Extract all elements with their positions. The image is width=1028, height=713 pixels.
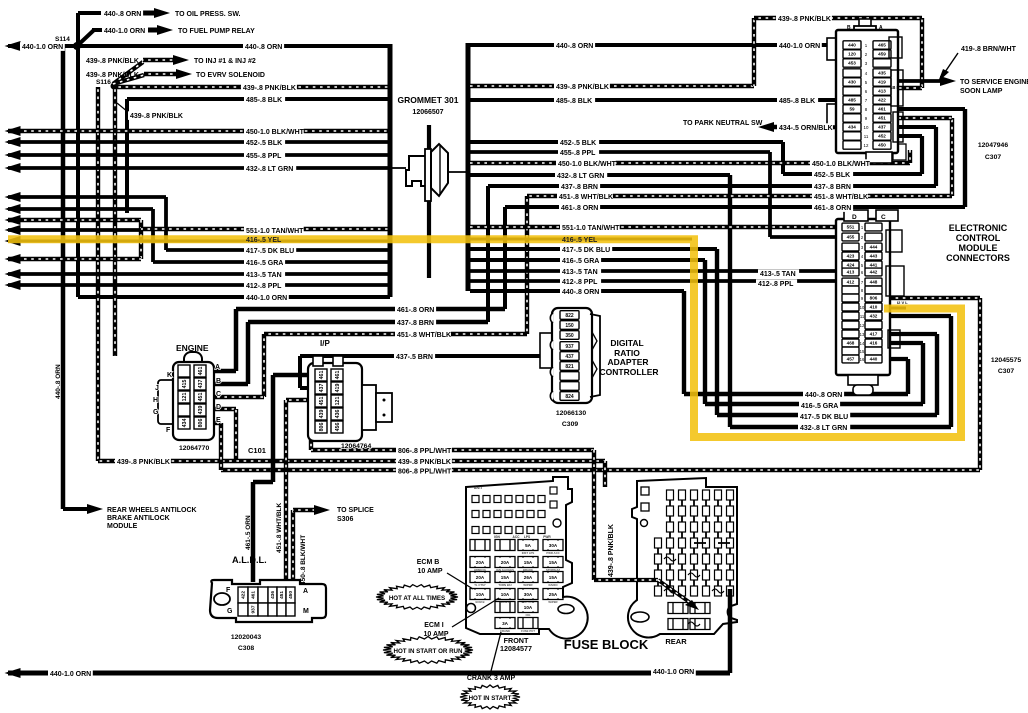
wire 452-.5 BLK row left [8, 140, 390, 144]
svg-text:12064764: 12064764 [341, 443, 371, 450]
wire 452-.5 BLK row right [470, 140, 783, 144]
wire 461-.8 ORN row to engine A [236, 307, 505, 312]
svg-text:16: 16 [860, 357, 865, 362]
svg-text:439-.8 PNK/BLK: 439-.8 PNK/BLK [130, 113, 183, 120]
svg-text:437: 437 [198, 380, 204, 389]
svg-text:B: B [216, 378, 221, 385]
svg-text:456: 456 [335, 423, 341, 432]
svg-text:25A: 25A [549, 592, 558, 597]
svg-text:424: 424 [847, 263, 855, 268]
svg-text:GROMMET 301: GROMMET 301 [398, 95, 459, 105]
connector ENGINE 12064770 [184, 352, 202, 368]
svg-text:350: 350 [565, 333, 574, 339]
svg-text:437: 437 [565, 354, 574, 360]
svg-text:806: 806 [319, 423, 325, 432]
svg-text:26A: 26A [524, 575, 533, 580]
svg-text:437: 437 [319, 384, 325, 393]
svg-text:417: 417 [870, 332, 878, 337]
svg-text:413-.5 TAN: 413-.5 TAN [562, 269, 598, 276]
svg-text:TURN B/U: TURN B/U [498, 583, 511, 587]
svg-text:PWR ACC: PWR ACC [546, 551, 559, 555]
wire 439-.8 PNK/BLK loop top right [470, 84, 754, 88]
svg-text:430: 430 [848, 80, 856, 85]
svg-text:1B F: 1B F [890, 85, 900, 90]
svg-text:14: 14 [860, 341, 865, 346]
svg-text:13: 13 [860, 332, 865, 337]
svg-text:20A: 20A [476, 560, 485, 565]
wire 485-.8 BLK row left [127, 97, 390, 101]
svg-text:REAR WHEELS ANTILOCK: REAR WHEELS ANTILOCK [107, 507, 197, 514]
svg-text:440-1.0 ORN: 440-1.0 ORN [104, 28, 145, 35]
wire 434-.5 ORN/BLK park neutral [772, 125, 843, 129]
svg-text:C309: C309 [562, 421, 578, 428]
svg-text:WIPER: WIPER [523, 583, 532, 587]
svg-text:C307: C307 [998, 368, 1014, 375]
svg-text:417-.5 DK BLU: 417-.5 DK BLU [246, 248, 294, 255]
wire 416 GRA left branch [8, 207, 153, 211]
svg-text:416-.5 YEL: 416-.5 YEL [246, 237, 282, 244]
svg-text:485: 485 [848, 98, 856, 103]
svg-text:485-.8 BLK: 485-.8 BLK [779, 98, 815, 105]
wire 551-1.0 TAN/WHT row right [470, 225, 842, 229]
connector DRAC C309 12066130 [540, 333, 554, 368]
svg-text:TO EVRV SOLENOID: TO EVRV SOLENOID [196, 72, 265, 79]
svg-text:CONTROL: CONTROL [956, 233, 1001, 243]
grommet 301 symbol [427, 125, 431, 278]
svg-text:465: 465 [878, 43, 886, 48]
svg-text:461: 461 [198, 367, 204, 376]
svg-text:437-.8 BRN: 437-.8 BRN [397, 320, 434, 327]
svg-text:12020043: 12020043 [231, 634, 261, 641]
svg-text:461: 461 [878, 107, 886, 112]
svg-text:439-.8 PNK/BLK: 439-.8 PNK/BLK [86, 58, 139, 65]
svg-text:DIGITAL: DIGITAL [610, 338, 643, 348]
connector C307 upper ECM 12047946 [827, 38, 839, 60]
svg-text:15A: 15A [549, 575, 558, 580]
svg-text:413: 413 [878, 89, 886, 94]
starburst hot at all times [376, 585, 458, 610]
svg-text:S116: S116 [96, 79, 111, 86]
svg-text:455: 455 [847, 235, 855, 240]
svg-text:461-.5 ORN: 461-.5 ORN [245, 515, 252, 550]
svg-text:439: 439 [319, 410, 325, 419]
wire hashed U branch left [8, 218, 141, 222]
svg-text:413: 413 [847, 270, 855, 275]
wire 417-.5 DK BLU row right [470, 247, 717, 251]
svg-text:439-.8 PNK/BLK: 439-.8 PNK/BLK [86, 72, 139, 79]
svg-text:806: 806 [198, 419, 204, 428]
connector lower ECM bottom tab [848, 375, 878, 385]
connector tab C [876, 210, 898, 221]
svg-text:ELECTRONIC: ELECTRONIC [949, 223, 1008, 233]
svg-text:455-.8 PPL: 455-.8 PPL [560, 150, 596, 157]
svg-text:440-.8 ORN: 440-.8 ORN [55, 364, 62, 399]
svg-text:12: 12 [864, 143, 869, 148]
svg-text:439: 439 [198, 406, 204, 415]
svg-text:12047946: 12047946 [978, 142, 1008, 149]
svg-text:450-1.0 BLK/WHT: 450-1.0 BLK/WHT [558, 161, 617, 168]
svg-text:440-.8 ORN: 440-.8 ORN [805, 392, 842, 399]
svg-text:FUSE BLOCK: FUSE BLOCK [564, 637, 649, 652]
svg-text:INST LPS: INST LPS [522, 551, 535, 555]
svg-text:H: H [153, 397, 158, 404]
svg-text:824: 824 [565, 394, 574, 400]
svg-text:10: 10 [860, 305, 865, 310]
wire 439 PNK/BLK engine D drop [210, 407, 236, 411]
wire trunk left at grommet [388, 44, 393, 297]
svg-text:C: C [881, 214, 886, 221]
svg-text:A: A [879, 25, 883, 31]
label pointer 439 [117, 103, 128, 112]
svg-text:422: 422 [878, 98, 886, 103]
wire 440 ORN row to ECM A pin1 [470, 43, 840, 47]
wire 413-.5 TAN row left [8, 272, 390, 276]
svg-text:432: 432 [870, 314, 878, 319]
pointer 419-.8 BRN/WHT [943, 53, 958, 75]
svg-text:485-.8 BLK: 485-.8 BLK [556, 98, 592, 105]
svg-text:20A: 20A [501, 560, 510, 565]
svg-text:ENGINE: ENGINE [176, 343, 209, 353]
svg-text:439-.8 PNK/BLK: 439-.8 PNK/BLK [243, 85, 296, 92]
svg-text:419-.8 BRN/WHT: 419-.8 BRN/WHT [961, 46, 1017, 53]
svg-text:F: F [166, 427, 171, 434]
svg-text:D: D [216, 404, 221, 411]
svg-text:806: 806 [870, 296, 878, 301]
pointer ECM B fuse [447, 573, 473, 589]
svg-text:ECM B: ECM B [417, 559, 440, 566]
svg-text:461: 461 [335, 371, 341, 380]
svg-text:F: F [226, 587, 231, 594]
svg-text:G: G [153, 409, 159, 416]
svg-text:ADAPTER: ADAPTER [607, 357, 648, 367]
svg-text:451-.8 WHT/BLK: 451-.8 WHT/BLK [814, 194, 868, 201]
svg-text:419: 419 [878, 80, 886, 85]
svg-text:G: G [227, 608, 233, 615]
connector C307 lower ECM 12045575 [836, 219, 890, 375]
wire 440-.8 ORN row right [470, 289, 684, 293]
svg-text:ECM B: ECM B [475, 600, 484, 604]
svg-text:440-.8 ORN: 440-.8 ORN [104, 11, 141, 18]
svg-text:30A: 30A [524, 592, 533, 597]
svg-text:410: 410 [870, 305, 878, 310]
svg-text:453: 453 [848, 61, 856, 66]
svg-text:412-.8 PPL: 412-.8 PPL [562, 279, 598, 286]
svg-text:K: K [167, 372, 172, 379]
wire 461 ORN ip to aldl [273, 373, 316, 378]
svg-text:I2 V L: I2 V L [897, 300, 908, 305]
svg-text:436: 436 [270, 591, 276, 599]
svg-text:TO OIL PRESS. SW.: TO OIL PRESS. SW. [175, 11, 241, 18]
svg-text:439-.8 PNK/BLK: 439-.8 PNK/BLK [556, 84, 609, 91]
svg-text:444: 444 [870, 245, 878, 250]
wire 416 YEL pin10 stub [882, 307, 906, 310]
wire 455-.8 PPL row left [8, 153, 390, 157]
svg-text:416-.5 GRA: 416-.5 GRA [246, 260, 283, 267]
svg-text:452: 452 [878, 134, 886, 139]
wire 485-.8 BLK row right [470, 98, 843, 102]
svg-text:440-.8 ORN: 440-.8 ORN [556, 43, 593, 50]
svg-text:461: 461 [319, 371, 325, 380]
wire 416-.5 GRA row right [470, 258, 705, 262]
wire 450-1.0 BLK/WHT row left [8, 129, 390, 133]
svg-text:432-.8 LT GRN: 432-.8 LT GRN [246, 166, 293, 173]
svg-text:413-.5 TAN: 413-.5 TAN [246, 272, 282, 279]
svg-text:417-.5 DK BLU: 417-.5 DK BLU [800, 414, 848, 421]
svg-text:412-.8 PPL: 412-.8 PPL [758, 281, 794, 288]
wire 440-.8 ORN vertical to antilock module [61, 46, 66, 509]
wire 485-.8 BLK vertical [125, 99, 129, 213]
wire 440-1.0 ORN vertical from S114 [76, 46, 80, 297]
svg-text:452-.5 BLK: 452-.5 BLK [814, 172, 850, 179]
svg-text:C: C [216, 391, 221, 398]
svg-text:20A: 20A [476, 575, 485, 580]
node S114 [73, 42, 81, 50]
wire 806 PPL/WHT upper row [309, 427, 313, 450]
svg-text:450: 450 [878, 143, 886, 148]
svg-text:15: 15 [860, 349, 865, 354]
svg-text:434-.5 ORN/BLK: 434-.5 ORN/BLK [779, 125, 833, 132]
svg-text:457: 457 [847, 357, 855, 362]
svg-text:M: M [303, 608, 309, 615]
svg-text:440-1.0 ORN: 440-1.0 ORN [246, 295, 287, 302]
svg-text:448: 448 [870, 280, 878, 285]
svg-text:E: E [216, 417, 221, 424]
svg-text:11: 11 [864, 134, 869, 139]
svg-text:451: 451 [198, 393, 204, 402]
pointer CRANK fuse [491, 632, 501, 671]
wire 432-.8 LT GRN row right [470, 173, 730, 177]
svg-text:415: 415 [182, 380, 188, 389]
svg-text:416: 416 [870, 341, 878, 346]
svg-text:I/P: I/P [320, 339, 330, 348]
svg-text:10A: 10A [524, 605, 533, 610]
svg-text:C308: C308 [238, 645, 254, 652]
svg-text:10A: 10A [476, 592, 485, 597]
wire 412-.8 PPL row right [470, 279, 842, 283]
svg-text:443: 443 [870, 254, 878, 259]
svg-text:452-.5 BLK: 452-.5 BLK [246, 140, 282, 147]
svg-text:450-.8 BLK/WHT: 450-.8 BLK/WHT [300, 535, 307, 585]
svg-text:LPS: LPS [524, 535, 530, 539]
svg-text:417-.5 DK BLU: 417-.5 DK BLU [562, 247, 610, 254]
svg-text:TO SERVICE ENGINE: TO SERVICE ENGINE [960, 79, 1028, 86]
svg-text:937: 937 [251, 605, 257, 613]
svg-text:821: 821 [565, 364, 574, 370]
wire 451-.8 WHT/BLK row right [527, 194, 952, 198]
svg-text:434: 434 [848, 125, 856, 130]
svg-text:437: 437 [878, 125, 886, 130]
svg-text:TL CTSY: TL CTSY [474, 583, 486, 587]
svg-text:ECM I: ECM I [424, 622, 444, 629]
svg-text:10 AMP: 10 AMP [417, 568, 442, 575]
svg-text:419: 419 [335, 384, 341, 393]
svg-text:TO PARK NEUTRAL SW: TO PARK NEUTRAL SW [683, 120, 763, 127]
svg-text:416-.5 GRA: 416-.5 GRA [562, 258, 599, 265]
yellow highlighted wire 416 YEL path [8, 239, 961, 437]
svg-text:455-.8 PPL: 455-.8 PPL [246, 153, 282, 160]
wire 806 PPL/WHT engine E drop [210, 421, 221, 425]
svg-text:459: 459 [878, 52, 886, 57]
svg-text:441: 441 [870, 263, 878, 268]
svg-text:A.L.D.L.: A.L.D.L. [232, 555, 267, 565]
svg-text:437-.8 BRN: 437-.8 BRN [561, 184, 598, 191]
connector I/P 12064764 [308, 363, 362, 441]
svg-text:12066507: 12066507 [412, 109, 443, 116]
wire to rear wheels antilock module [63, 507, 90, 511]
starburst hot in start or run [383, 637, 473, 664]
wire 439-.8 PNK/BLK vertical S116 down left [96, 87, 100, 461]
svg-text:440-.8 ORN: 440-.8 ORN [562, 289, 599, 296]
svg-text:RADIO: RADIO [548, 583, 558, 587]
svg-text:440-1.0 ORN: 440-1.0 ORN [50, 671, 91, 678]
svg-text:BRAKE ANTILOCK: BRAKE ANTILOCK [107, 515, 170, 522]
svg-text:HOT IN START: HOT IN START [469, 695, 512, 702]
svg-text:440: 440 [870, 357, 878, 362]
svg-text:461: 461 [251, 591, 257, 599]
fuse block FRONT 12084577 [466, 477, 588, 639]
svg-text:416-.5 GRA: 416-.5 GRA [801, 403, 838, 410]
svg-text:10: 10 [864, 125, 869, 130]
wire 450-.8 BLK/WHT aldl to splice [291, 510, 295, 582]
wire 437-.8 BRN row to engine B [248, 320, 488, 325]
wire 806 hashed pin9 loop [884, 296, 980, 300]
svg-text:451: 451 [319, 397, 325, 406]
svg-text:440-1.0 ORN: 440-1.0 ORN [779, 43, 820, 50]
fuse block REAR [628, 478, 737, 638]
svg-text:C101: C101 [248, 446, 266, 455]
svg-text:S306: S306 [337, 516, 353, 523]
svg-text:SOON LAMP: SOON LAMP [960, 88, 1003, 95]
wire trunk right at grommet [466, 43, 471, 291]
svg-text:15A: 15A [501, 575, 510, 580]
svg-text:HOT AT ALL TIMES: HOT AT ALL TIMES [389, 595, 445, 602]
svg-text:30A: 30A [549, 543, 558, 548]
node S116 [111, 83, 118, 90]
svg-text:ANTI: ANTI [474, 486, 482, 490]
svg-text:439-.8 PNK/BLK: 439-.8 PNK/BLK [608, 524, 615, 577]
connector ALDL C308 12020043 [210, 580, 326, 622]
svg-text:3A: 3A [502, 621, 509, 626]
svg-text:450-1.0 BLK/WHT: 450-1.0 BLK/WHT [812, 161, 871, 168]
svg-text:REAR: REAR [665, 637, 687, 646]
svg-text:12064770: 12064770 [179, 445, 209, 452]
svg-text:CONTROLLER: CONTROLLER [599, 367, 658, 377]
svg-text:432-.8 LT GRN: 432-.8 LT GRN [800, 425, 847, 432]
svg-text:10A: 10A [501, 592, 510, 597]
svg-text:436: 436 [335, 410, 341, 419]
wire 437-.5 BRN row to DRAC [300, 354, 558, 358]
svg-text:CIG: CIG [526, 613, 531, 617]
svg-text:59: 59 [849, 107, 855, 112]
svg-text:12084577: 12084577 [500, 644, 532, 653]
svg-text:551-1.0 TAN/WHT: 551-1.0 TAN/WHT [562, 225, 620, 232]
svg-text:440-1.0 ORN: 440-1.0 ORN [653, 669, 694, 676]
svg-text:437-.5 BRN: 437-.5 BRN [396, 354, 433, 361]
svg-text:412-.8 PPL: 412-.8 PPL [246, 283, 282, 290]
wire 439 PNK/BLK into rear block [594, 578, 658, 582]
svg-text:451-.8 WHT/BLK: 451-.8 WHT/BLK [397, 332, 451, 339]
svg-text:TO SPLICE: TO SPLICE [337, 507, 374, 514]
wire 455-.8 PPL row right [470, 150, 770, 154]
wire 437-.8 BRN row right [488, 184, 936, 188]
wire 451-.8 WHT/BLK row to engine C [264, 332, 527, 336]
wire 451-.8 WHT/BLK ip to aldl [286, 398, 316, 402]
wire 417 DK BLU left branch [8, 195, 166, 199]
svg-text:442: 442 [870, 270, 878, 275]
svg-text:412: 412 [847, 280, 855, 285]
wire 439-.8 PNK/BLK to EVRV [113, 75, 144, 84]
svg-text:CONNECTORS: CONNECTORS [946, 253, 1010, 263]
svg-text:452-.5 BLK: 452-.5 BLK [560, 140, 596, 147]
wire 461-.8 ORN row right [505, 205, 965, 209]
svg-text:TO INJ #1 & INJ #2: TO INJ #1 & INJ #2 [194, 58, 256, 65]
svg-text:121: 121 [182, 393, 188, 402]
svg-text:121: 121 [335, 397, 341, 406]
wire 416-.5 YEL row right (under highlight) [470, 238, 692, 241]
svg-text:416-.5 YEL: 416-.5 YEL [562, 237, 598, 244]
svg-text:D: D [852, 214, 857, 221]
svg-text:C307: C307 [985, 154, 1001, 161]
svg-text:451-.8 WHT/BLK: 451-.8 WHT/BLK [559, 194, 613, 201]
svg-text:468: 468 [847, 341, 855, 346]
wire 440-1.0 ORN rear block drop [728, 589, 733, 673]
svg-text:12045575: 12045575 [991, 357, 1021, 364]
wire 450-1.0 BLK/WHT row right [470, 161, 910, 165]
svg-text:450-1.0 BLK/WHT: 450-1.0 BLK/WHT [246, 129, 305, 136]
svg-text:15A: 15A [549, 560, 558, 565]
svg-text:435: 435 [878, 71, 886, 76]
wire 439 PNK/BLK to fuse block (upper part) [592, 450, 596, 580]
svg-text:822: 822 [565, 313, 574, 319]
svg-text:S114: S114 [55, 36, 70, 43]
svg-text:461-.8 ORN: 461-.8 ORN [397, 307, 434, 314]
connector upper ECM bottom tab [866, 152, 892, 163]
svg-text:11: 11 [860, 314, 865, 319]
svg-text:TO FUEL PUMP RELAY: TO FUEL PUMP RELAY [178, 28, 255, 35]
svg-text:MODULE: MODULE [107, 523, 138, 530]
svg-text:MODULE: MODULE [959, 243, 998, 253]
svg-text:5A: 5A [525, 543, 532, 548]
connector tab D [844, 210, 868, 221]
svg-text:440-.8 ORN: 440-.8 ORN [245, 44, 282, 51]
wire 440-.8 ORN to oil press sw [76, 13, 80, 46]
svg-text:IGN: IGN [494, 535, 500, 539]
svg-text:B: B [847, 25, 851, 31]
svg-text:485-.8 BLK: 485-.8 BLK [246, 97, 282, 104]
pointer ECM I fuse [452, 598, 499, 627]
svg-text:806-.8 PPL/WHT: 806-.8 PPL/WHT [398, 448, 452, 455]
svg-text:461-.8 ORN: 461-.8 ORN [814, 205, 851, 212]
wire 440-1.0 ORN bottom row [8, 671, 730, 676]
svg-text:551-1.0 TAN/WHT: 551-1.0 TAN/WHT [246, 228, 304, 235]
svg-text:440-1.0 ORN: 440-1.0 ORN [22, 44, 63, 51]
svg-text:WIPER: WIPER [548, 600, 557, 604]
svg-text:12066130: 12066130 [556, 410, 586, 417]
svg-text:12: 12 [860, 323, 865, 328]
svg-text:439-.8 PNK/BLK: 439-.8 PNK/BLK [778, 16, 831, 23]
wire 440-1.0 ORN left exit [8, 44, 390, 48]
svg-text:A: A [215, 364, 220, 371]
svg-text:423: 423 [847, 254, 855, 259]
svg-text:CRANK 3 AMP: CRANK 3 AMP [467, 675, 516, 682]
svg-text:15A: 15A [524, 560, 533, 565]
svg-text:FUSE PUT: FUSE PUT [521, 629, 535, 633]
wire 439-.8 PNK/BLK row S116 to grommet [114, 85, 390, 89]
svg-text:439-.8 PNK/BLK: 439-.8 PNK/BLK [398, 459, 451, 466]
rear block squiggles [664, 557, 676, 561]
svg-text:439-.8 PNK/BLK: 439-.8 PNK/BLK [117, 459, 170, 466]
svg-text:440: 440 [848, 43, 856, 48]
